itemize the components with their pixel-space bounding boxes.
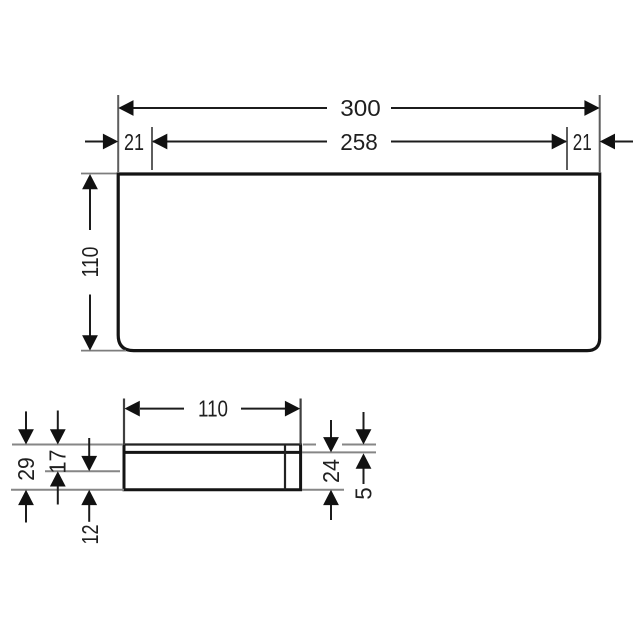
arrow 110 up — [82, 174, 98, 189]
side view left edge upper segment — [123, 444, 126, 454]
extension line bottom-left horizontal — [81, 350, 126, 352]
arrow 300 left — [118, 100, 133, 116]
dimension 258 line — [153, 141, 566, 143]
arrow 21 left — [103, 134, 118, 150]
svg-text:12: 12 — [77, 525, 103, 545]
svg-text:21: 21 — [573, 129, 592, 155]
arrow 12 down — [81, 456, 97, 471]
dimension 110 vertical line upper — [89, 187, 91, 230]
arrow 300 right — [584, 100, 599, 116]
arrow 29 up — [18, 490, 34, 505]
side view left edge extension up — [123, 399, 125, 446]
arrow 5 down — [356, 429, 372, 444]
arrow 258 left — [152, 134, 167, 150]
extension line C left — [11, 489, 124, 491]
dimension 21 right tail — [614, 141, 633, 143]
side view right edge upper segment — [299, 444, 302, 454]
extension line x152 — [151, 127, 153, 170]
svg-text:300: 300 — [340, 95, 381, 121]
dimension 21 left tail — [85, 141, 104, 143]
extension line B left — [45, 470, 120, 472]
extension line A right dashes — [303, 444, 316, 446]
side view bracket inner vertical — [284, 445, 286, 490]
svg-text:110: 110 — [198, 396, 228, 422]
side view glass top line — [123, 443, 302, 445]
arrow 5 up — [356, 453, 372, 468]
svg-text:5: 5 — [350, 487, 376, 500]
extension line A left — [12, 444, 123, 446]
side view slab outline — [124, 452, 301, 489]
svg-text:258: 258 — [340, 129, 378, 155]
dim 5 column — [363, 412, 365, 484]
arrow 24 down — [323, 437, 339, 452]
arrow 17 down — [50, 429, 66, 444]
side view right edge extension up — [300, 399, 302, 446]
arrow 110 down — [82, 335, 98, 350]
arrow 258 right — [552, 134, 567, 150]
dim 24 column — [330, 420, 332, 520]
dimension 110 vertical line lower — [89, 295, 91, 338]
svg-text:24: 24 — [318, 459, 344, 483]
dimension 110 bottom line right — [241, 408, 286, 410]
dim 17 column — [57, 411, 59, 505]
dim 29 column — [25, 411, 27, 522]
svg-text:21: 21 — [124, 129, 144, 155]
svg-text:17: 17 — [45, 450, 71, 474]
svg-text:29: 29 — [13, 457, 39, 481]
svg-text:110: 110 — [77, 247, 103, 278]
arrow 29 down — [18, 429, 34, 444]
extension line x567 — [566, 127, 568, 170]
extension line C right — [302, 489, 344, 491]
extension line left x118 — [117, 95, 119, 172]
dimension 300 line — [120, 107, 598, 109]
arrow 110b right — [285, 401, 300, 417]
extension line top-left horizontal — [81, 173, 117, 175]
dim 12 column — [88, 438, 90, 522]
extension line right x600 — [599, 95, 601, 172]
arrow 24 up — [323, 490, 339, 505]
arrow 21 right — [600, 134, 615, 150]
shelf front view outline — [118, 174, 600, 351]
dimension 110 bottom line left — [140, 408, 184, 410]
arrow 110b left — [125, 401, 140, 417]
arrow 12 up — [81, 490, 97, 505]
arrow 17 up — [50, 471, 66, 486]
extension line A2 right — [302, 451, 376, 453]
